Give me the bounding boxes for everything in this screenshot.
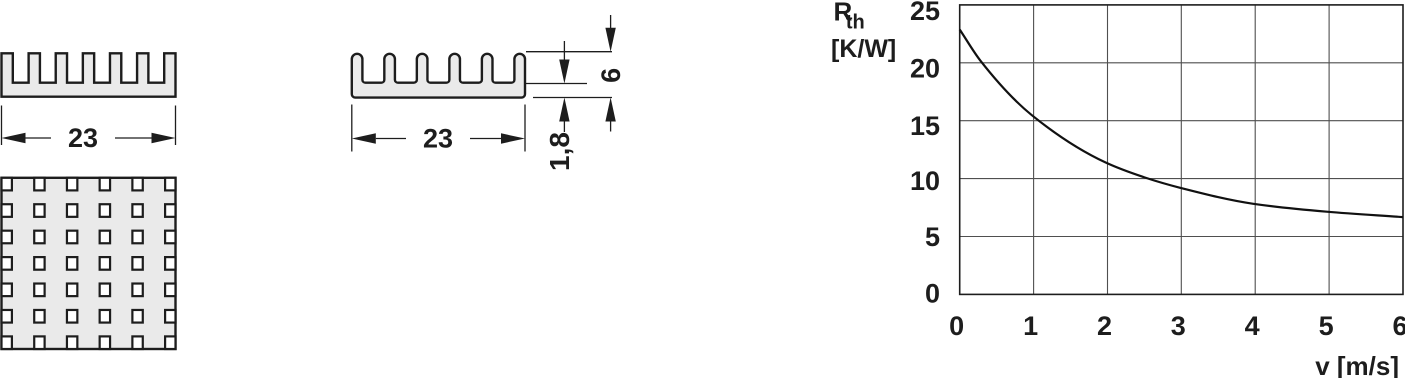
- svg-text:th: th: [846, 12, 865, 34]
- svg-text:6: 6: [596, 68, 626, 83]
- svg-text:23: 23: [423, 124, 453, 154]
- svg-text:25: 25: [910, 0, 940, 26]
- svg-text:5: 5: [925, 222, 940, 252]
- svg-text:4: 4: [1245, 311, 1260, 341]
- svg-text:v [m/s]: v [m/s]: [1315, 351, 1399, 378]
- svg-text:20: 20: [910, 53, 940, 83]
- svg-text:2: 2: [1097, 311, 1112, 341]
- svg-text:6: 6: [1392, 311, 1405, 341]
- svg-text:1: 1: [1023, 311, 1038, 341]
- svg-text:15: 15: [910, 111, 940, 141]
- svg-text:0: 0: [925, 279, 940, 309]
- svg-text:10: 10: [910, 166, 940, 196]
- svg-text:3: 3: [1171, 311, 1186, 341]
- svg-text:23: 23: [68, 123, 98, 153]
- svg-text:0: 0: [949, 311, 964, 341]
- svg-text:5: 5: [1319, 311, 1334, 341]
- svg-text:[K/W]: [K/W]: [831, 35, 896, 63]
- svg-text:1,8: 1,8: [544, 132, 575, 171]
